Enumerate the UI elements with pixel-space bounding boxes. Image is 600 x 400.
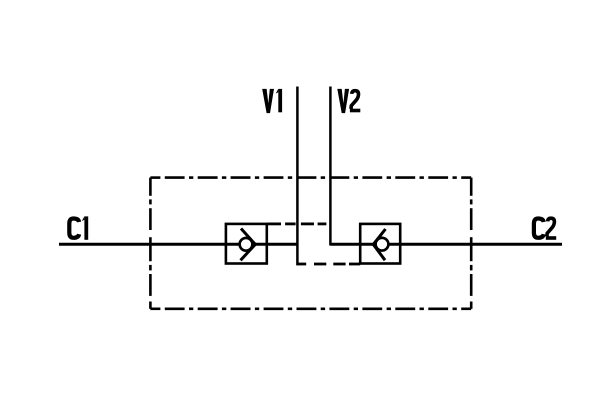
check valve CV1 body [226, 224, 267, 264]
pilot line V1 to CV2 (dashed) [314, 263, 360, 266]
wire C1 port line [59, 243, 297, 246]
port label V2 [337, 89, 360, 113]
wire C2 port line [330, 243, 562, 246]
pilot line V2 to CV1 (dashed) [267, 222, 327, 225]
enclosure (valve assembly boundary, dash-dot) [150, 178, 471, 309]
port label V1 [262, 89, 282, 113]
port label C1 [69, 216, 88, 239]
check valve CV2 seat [373, 229, 385, 260]
port label C2 [534, 218, 556, 240]
wire V1 pilot elbow [297, 263, 306, 266]
check valve CV1 seat [241, 229, 256, 261]
check valve CV1 ball [240, 238, 253, 251]
check valve CV2 ball [376, 238, 389, 251]
wire V2 port line [330, 87, 360, 245]
wire V1 port line [296, 87, 299, 266]
check valve CV2 body [360, 224, 400, 264]
